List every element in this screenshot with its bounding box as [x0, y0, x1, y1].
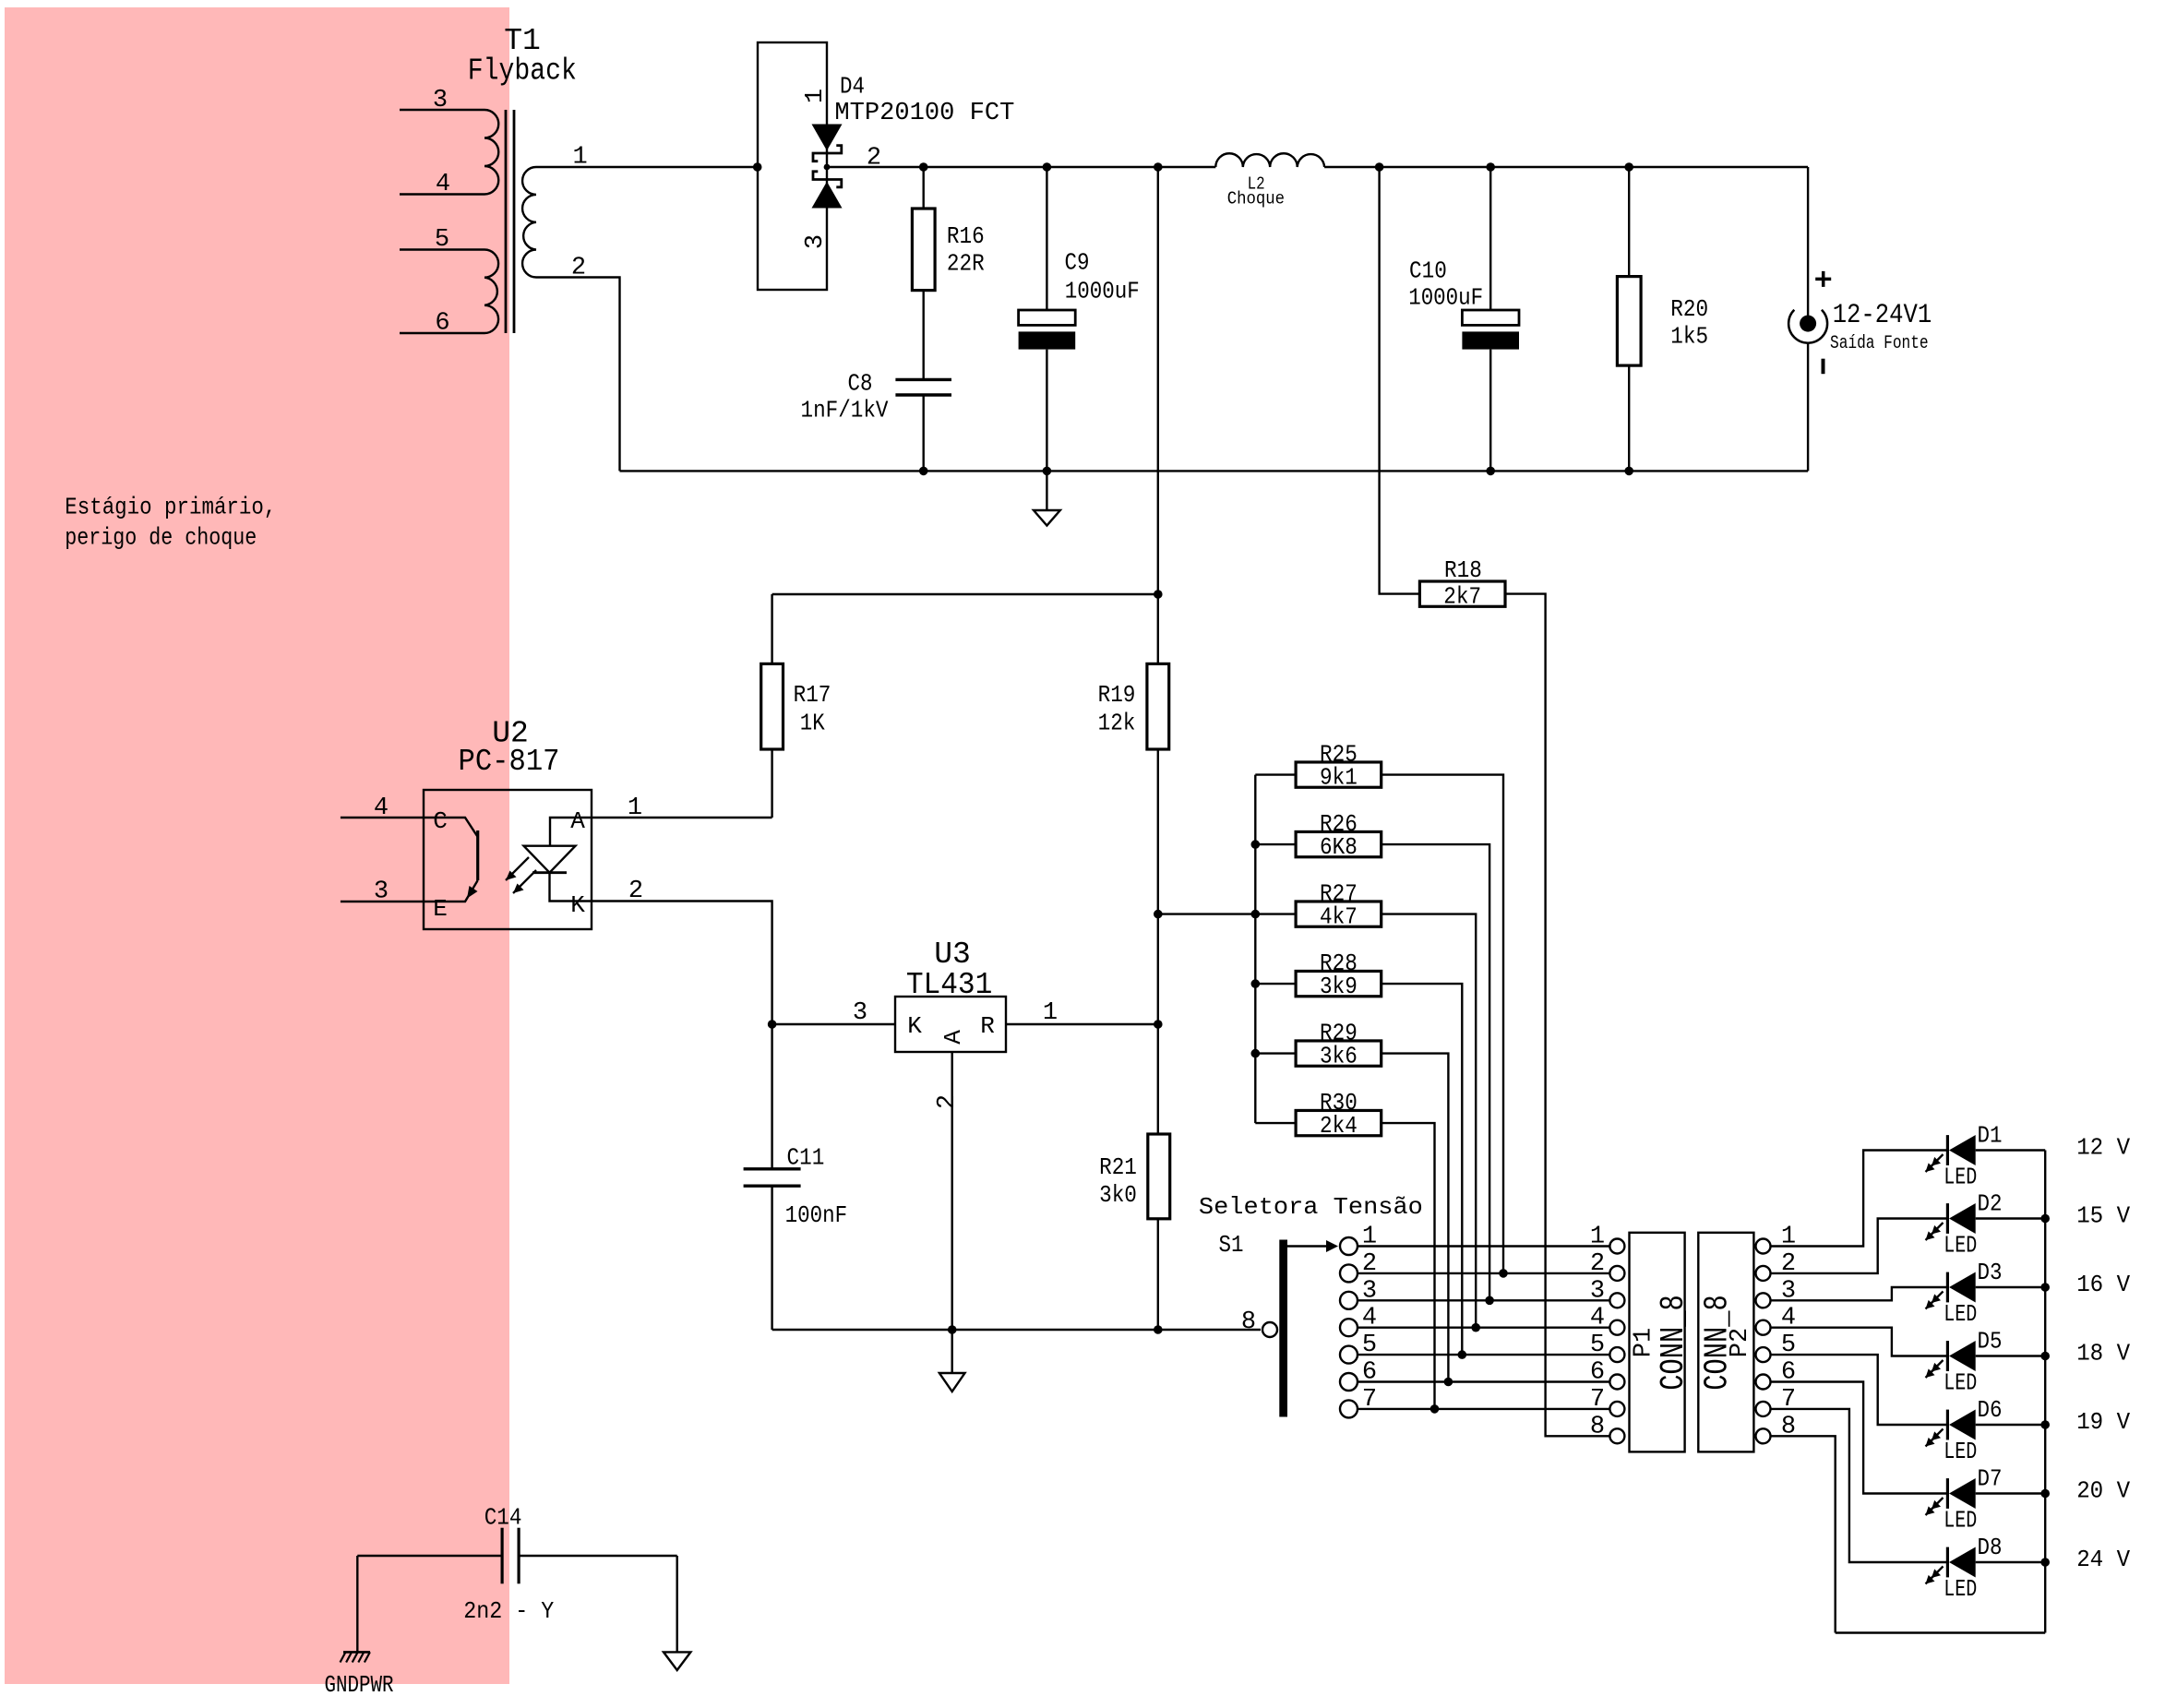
resistor R26 6K8 [1255, 810, 1381, 861]
ground (under C9) [1034, 471, 1060, 525]
connector 12-24V1 Saida Fonte [1788, 167, 1932, 471]
capacitor C10 1000uF (polarized) [1408, 167, 1519, 471]
junction: LED bus at D5 [2040, 1352, 2050, 1361]
wire: R28 to S1 pin 5 [1382, 984, 1463, 1355]
wire: U2 pin3 stub [341, 901, 424, 902]
svg-text:K: K [570, 891, 585, 919]
svg-text:P1: P1 [1631, 1328, 1658, 1357]
wire: R27 to S1 pin 4 [1382, 914, 1477, 1328]
junction: T1-D4 node [753, 162, 762, 172]
svg-text:22R: 22R [947, 250, 985, 278]
S1 contact 5 [1340, 1332, 1377, 1364]
svg-text:R16: R16 [947, 222, 985, 250]
wire: P2 pin1 to D1 [1771, 1151, 1948, 1247]
wire: S1 6 to P1 6 [1358, 1380, 1609, 1382]
wire: feedback top [772, 593, 1158, 595]
wire: R19 node to divider bus [1158, 913, 1256, 914]
resistor R28 3k9 [1255, 950, 1381, 1000]
svg-text:3: 3 [1590, 1277, 1605, 1305]
svg-text:PC-817: PC-817 [459, 745, 560, 779]
junction: at S1 wire 4 [1471, 1323, 1480, 1332]
svg-text:D1: D1 [1978, 1122, 2003, 1150]
svg-text:LED: LED [1944, 1369, 1977, 1397]
switch S1 Seletora Tensao [1199, 1193, 1423, 1417]
svg-text:9k1: 9k1 [1320, 763, 1358, 791]
optocoupler U2 PC-817 [374, 716, 643, 929]
svg-text:Flyback: Flyback [468, 54, 577, 89]
wire: S1 2 to P1 2 [1358, 1272, 1609, 1274]
svg-text:4: 4 [1590, 1305, 1605, 1332]
junction: LED bus at D6 [2040, 1420, 2050, 1429]
svg-text:5: 5 [1590, 1332, 1605, 1359]
wire: U3 pin2 (A) down [951, 1052, 952, 1330]
svg-text:E: E [433, 895, 448, 923]
junction: ref node [1154, 1020, 1163, 1029]
junction: bus at C9/gnd [1043, 467, 1052, 476]
svg-text:1k5: 1k5 [1670, 323, 1708, 351]
wire: R18 to P1 pin8 [1505, 594, 1609, 1437]
svg-text:R17: R17 [794, 681, 831, 709]
junction: LED bus at D8 [2040, 1558, 2050, 1567]
svg-text:LED: LED [1944, 1575, 1977, 1603]
transformer T1 Flyback [400, 24, 588, 338]
junction: at S1 wire 3 [1485, 1296, 1494, 1306]
S1 contact 1 [1340, 1224, 1377, 1256]
svg-text:1: 1 [1590, 1224, 1605, 1251]
svg-text:S1: S1 [1219, 1231, 1244, 1259]
connector P2 CONN_8 [1698, 1233, 1754, 1452]
minus mark [1822, 359, 1825, 375]
svg-text:12-24V1: 12-24V1 [1833, 300, 1932, 331]
svg-text:R19: R19 [1098, 681, 1136, 709]
wire: P2 pin3 to D3 [1771, 1287, 1948, 1300]
svg-text:GNDPWR: GNDPWR [325, 1671, 394, 1699]
regulator U3 TL431 [853, 938, 1058, 1109]
LED D1 [1926, 1122, 2046, 1191]
capacitor C8 1nF/1kV [801, 370, 952, 472]
svg-text:3k9: 3k9 [1320, 973, 1358, 1000]
wire: U2 pin1 to R17 [592, 817, 772, 818]
P2 pin 2 [1756, 1250, 1797, 1281]
junction: rail at R19 [1154, 162, 1163, 172]
resistor R20 1k5 [1617, 167, 1708, 471]
wire: T1 pin2 down to return bus [536, 278, 620, 472]
P2 pin 4 [1756, 1305, 1797, 1335]
svg-text:LED: LED [1944, 1164, 1977, 1191]
junction: bus at R29 [1251, 1049, 1261, 1058]
capacitor C9 1000uF (polarized) [1019, 167, 1140, 471]
capacitor C11 100nF [744, 1024, 848, 1330]
svg-text:A: A [570, 807, 585, 835]
inductor L2 Choque [1215, 153, 1324, 209]
svg-text:1000uF: 1000uF [1408, 284, 1483, 312]
junction: at S1 wire 5 [1458, 1350, 1467, 1359]
svg-text:16 V: 16 V [2076, 1271, 2130, 1298]
P1 pin 3 [1590, 1277, 1625, 1308]
P1 pin 8 [1590, 1413, 1625, 1443]
wire: U3 pin1 to R19/R21 line [1006, 1023, 1158, 1025]
svg-text:100nF: 100nF [785, 1201, 848, 1229]
capacitor C14 2n2-Y [357, 1503, 676, 1625]
wire: U3 pin3 [772, 1023, 895, 1025]
svg-text:Choque: Choque [1227, 189, 1285, 209]
resistor R25 9k1 [1255, 741, 1381, 792]
svg-text:T1: T1 [504, 24, 541, 58]
wire: D4 pin2 to L2 (main V+ rail) [827, 166, 1215, 168]
svg-text:1: 1 [802, 89, 830, 103]
S1 contact 6 [1340, 1359, 1377, 1391]
svg-text:LED: LED [1944, 1300, 1977, 1328]
svg-text:P2: P2 [1727, 1328, 1754, 1357]
svg-text:3k6: 3k6 [1320, 1042, 1358, 1069]
primary stage danger zone (pink) [5, 7, 509, 1684]
junction: rail at C9 [1043, 162, 1052, 172]
svg-text:Seletora Tensão: Seletora Tensão [1199, 1193, 1423, 1221]
wire: divider left bus [1254, 775, 1256, 1124]
svg-text:4k7: 4k7 [1320, 902, 1358, 930]
wire: P2 pin6 to D7 [1771, 1382, 1948, 1494]
svg-text:6: 6 [435, 310, 449, 338]
svg-text:2k7: 2k7 [1443, 582, 1481, 610]
svg-text:LED: LED [1944, 1232, 1977, 1260]
svg-text:D5: D5 [1978, 1328, 2003, 1356]
ground (right of C14) [664, 1556, 690, 1670]
svg-text:3: 3 [433, 87, 448, 114]
svg-text:18 V: 18 V [2076, 1340, 2130, 1368]
svg-text:15 V: 15 V [2076, 1202, 2130, 1230]
wire: P2 pin7 to D8 [1771, 1409, 1948, 1562]
svg-text:D6: D6 [1978, 1396, 2003, 1424]
svg-text:MTP20100 FCT: MTP20100 FCT [834, 100, 1014, 127]
junction: rail at R18 branch [1375, 162, 1384, 172]
P2 pin 6 [1756, 1359, 1797, 1390]
wire: U2 pin4 stub [341, 817, 424, 818]
svg-text:1K: 1K [800, 710, 825, 737]
S1 contact 3 [1340, 1277, 1377, 1309]
svg-text:12k: 12k [1098, 710, 1136, 737]
ground (under TL431 A) [939, 1330, 965, 1391]
svg-text:Estágio primário,: Estágio primário, [65, 494, 276, 521]
wire: P2 pin5 to D6 [1771, 1355, 1948, 1425]
wire: LED return bottom [1836, 1631, 2046, 1633]
svg-text:3: 3 [853, 999, 867, 1027]
P1 pin 4 [1590, 1305, 1625, 1335]
svg-text:Saída Fonte: Saída Fonte [1830, 333, 1929, 354]
junction: bus at R26 [1251, 840, 1261, 849]
svg-text:6K8: 6K8 [1320, 833, 1358, 861]
svg-text:K: K [907, 1012, 922, 1040]
P1 pin 5 [1590, 1332, 1625, 1362]
P2 pin 3 [1756, 1277, 1797, 1308]
svg-text:LED: LED [1944, 1438, 1977, 1465]
svg-text:D8: D8 [1978, 1534, 2003, 1561]
svg-text:4: 4 [436, 171, 450, 198]
svg-text:C8: C8 [848, 370, 873, 398]
P1 pin 1 [1590, 1224, 1625, 1254]
wire: P2 pin4 to D5 [1771, 1328, 1948, 1356]
wire: down to R18 [1380, 167, 1420, 594]
svg-text:R: R [980, 1012, 995, 1040]
junction: bus at R28 [1251, 979, 1261, 988]
svg-text:2n2 - Y: 2n2 - Y [463, 1597, 554, 1625]
connector P1 CONN_8 [1630, 1233, 1693, 1452]
svg-text:D4: D4 [840, 73, 865, 101]
LED D7 [1926, 1465, 2046, 1535]
svg-text:19 V: 19 V [2076, 1408, 2130, 1436]
svg-text:C10: C10 [1409, 257, 1447, 284]
wire: S1 7 to P1 7 [1358, 1408, 1609, 1410]
LED D3 [1926, 1259, 2046, 1328]
svg-text:R18: R18 [1444, 556, 1482, 584]
wire: R25 to S1 pin 2 [1382, 775, 1503, 1273]
P1 pin 2 [1590, 1250, 1625, 1281]
P1 pin 6 [1590, 1359, 1625, 1390]
junction: rail at R16 [919, 162, 928, 172]
resistor R19 12k [1098, 167, 1169, 1134]
power ground GNDPWR [325, 1556, 394, 1699]
svg-text:2k4: 2k4 [1320, 1112, 1358, 1140]
svg-text:C9: C9 [1065, 248, 1090, 276]
P2 pin 1 [1756, 1224, 1797, 1254]
S1 contact 7 [1340, 1386, 1377, 1418]
resistor R16 22R [912, 167, 984, 379]
note: Estagio primario [65, 494, 276, 552]
LED D5 [1926, 1328, 2046, 1397]
svg-text:5: 5 [435, 226, 449, 254]
svg-text:A: A [939, 1030, 967, 1045]
S1 contact 2 [1340, 1250, 1377, 1283]
svg-text:24 V: 24 V [2076, 1546, 2130, 1573]
junction: A/gnd [948, 1325, 957, 1334]
svg-text:1nF/1kV: 1nF/1kV [801, 397, 889, 424]
junction: rail at R20 [1624, 162, 1633, 172]
svg-text:CONN_8: CONN_8 [1655, 1295, 1693, 1391]
svg-text:D2: D2 [1978, 1190, 2003, 1218]
junction: LED bus at D2 [2040, 1214, 2050, 1224]
P1 pin 7 [1590, 1386, 1625, 1416]
wire: R30 to S1 pin 7 [1382, 1123, 1435, 1409]
svg-text:C14: C14 [484, 1503, 522, 1531]
wire: R26 to S1 pin 3 [1382, 844, 1489, 1300]
resistor R18 2k7 [1419, 556, 1505, 610]
wire: R29 to S1 pin 6 [1382, 1054, 1449, 1382]
svg-text:8: 8 [1590, 1413, 1605, 1440]
svg-text:3k0: 3k0 [1099, 1181, 1137, 1209]
P2 pin 5 [1756, 1332, 1797, 1362]
resistor R21 3k0 [1099, 1134, 1170, 1330]
S1 common contact [1262, 1322, 1277, 1337]
diode D4 MTP20100 FCT (dual schottky) [758, 42, 1014, 290]
wire: S1 3 to P1 3 [1358, 1299, 1609, 1301]
wire: L2 to output rail [1324, 166, 1808, 168]
wire: P2 pin8 to LED return [1771, 1436, 1836, 1632]
svg-text:D7: D7 [1978, 1465, 2003, 1493]
svg-text:D3: D3 [1978, 1259, 2003, 1286]
svg-text:3: 3 [802, 234, 830, 249]
junction: rail at C10 [1486, 162, 1495, 172]
svg-text:perigo de choque: perigo de choque [65, 523, 257, 551]
wire: GND bus to S1 common [772, 1329, 1261, 1331]
svg-text:8: 8 [1241, 1308, 1256, 1336]
S1 wiper arrow [1287, 1245, 1326, 1247]
junction: R21 bottom [1154, 1325, 1163, 1334]
svg-text:6: 6 [1590, 1359, 1605, 1387]
svg-text:R20: R20 [1670, 295, 1708, 323]
wire: S1 4 to P1 4 [1358, 1326, 1609, 1328]
resistor R27 4k7 [1255, 880, 1381, 931]
svg-text:C: C [433, 807, 448, 835]
junction: bus at C10 [1486, 467, 1495, 476]
wire: return bus (0V) [620, 470, 1809, 472]
svg-text:1000uF: 1000uF [1065, 278, 1140, 305]
junction: R19 line at feedback top [1154, 590, 1163, 599]
svg-text:12 V: 12 V [2076, 1134, 2130, 1162]
junction: K node [768, 1020, 777, 1029]
junction: LED bus at D3 [2040, 1283, 2050, 1292]
S1 contact 4 [1340, 1305, 1377, 1337]
wire: S1 5 to P1 5 [1358, 1354, 1609, 1356]
resistor R30 2k4 [1255, 1089, 1381, 1140]
svg-text:1: 1 [1043, 999, 1058, 1027]
svg-text:R21: R21 [1099, 1153, 1137, 1181]
resistor R17 1K [761, 594, 831, 818]
plus mark [1815, 271, 1831, 287]
LED D2 [1926, 1190, 2046, 1260]
svg-text:2: 2 [1590, 1250, 1605, 1278]
P2 pin 7 [1756, 1386, 1797, 1416]
LED D6 [1926, 1396, 2046, 1465]
junction: at S1 wire 2 [1499, 1269, 1508, 1278]
resistor R29 3k6 [1255, 1020, 1381, 1070]
wire: U2 pin2 to TL431 K node [592, 902, 772, 1025]
wire: P2 pin2 to D2 [1771, 1219, 1948, 1273]
P2 pin 8 [1756, 1413, 1797, 1443]
svg-text:2: 2 [934, 1094, 962, 1109]
wire: S1 1 to P1 1 [1358, 1245, 1609, 1247]
junction: bus at R20 [1624, 467, 1633, 476]
wire: LED anode bus [2044, 1151, 2046, 1633]
junction: at S1 wire 7 [1430, 1404, 1440, 1414]
svg-text:20 V: 20 V [2076, 1477, 2130, 1505]
svg-text:LED: LED [1944, 1507, 1977, 1535]
junction: at S1 wire 6 [1444, 1378, 1453, 1387]
LED D8 [1926, 1534, 2046, 1603]
svg-text:C11: C11 [787, 1144, 825, 1172]
svg-text:7: 7 [1590, 1386, 1605, 1414]
wire: T1 pin1 to D4 [536, 166, 758, 168]
junction: LED bus at D7 [2040, 1489, 2050, 1499]
svg-text:U3: U3 [934, 938, 971, 972]
junction: bus at C8 [919, 467, 928, 476]
junction: D4 cathode out [824, 164, 831, 171]
